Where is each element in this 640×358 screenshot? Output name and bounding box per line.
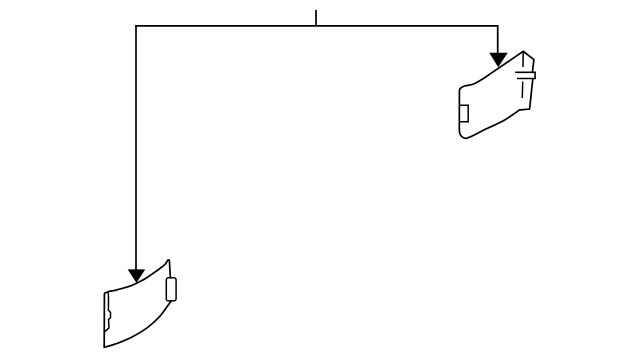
right bracket fold line upper [522,53,524,68]
right bracket side tab [515,72,535,78]
right bracket outline [459,51,534,138]
left bracket right tab [166,278,176,301]
left bracket flange line with notch [105,292,111,332]
wire: left leader drop [135,25,137,270]
wire: right leader drop [497,25,499,54]
right arrowhead [490,53,507,67]
right bracket fold line lower [521,82,523,99]
node 1: callout tick [315,10,317,26]
left bracket outline [104,260,172,347]
left arrowhead [128,270,145,283]
right bracket left clip [459,105,468,122]
wire: horizontal leader line [135,25,497,27]
